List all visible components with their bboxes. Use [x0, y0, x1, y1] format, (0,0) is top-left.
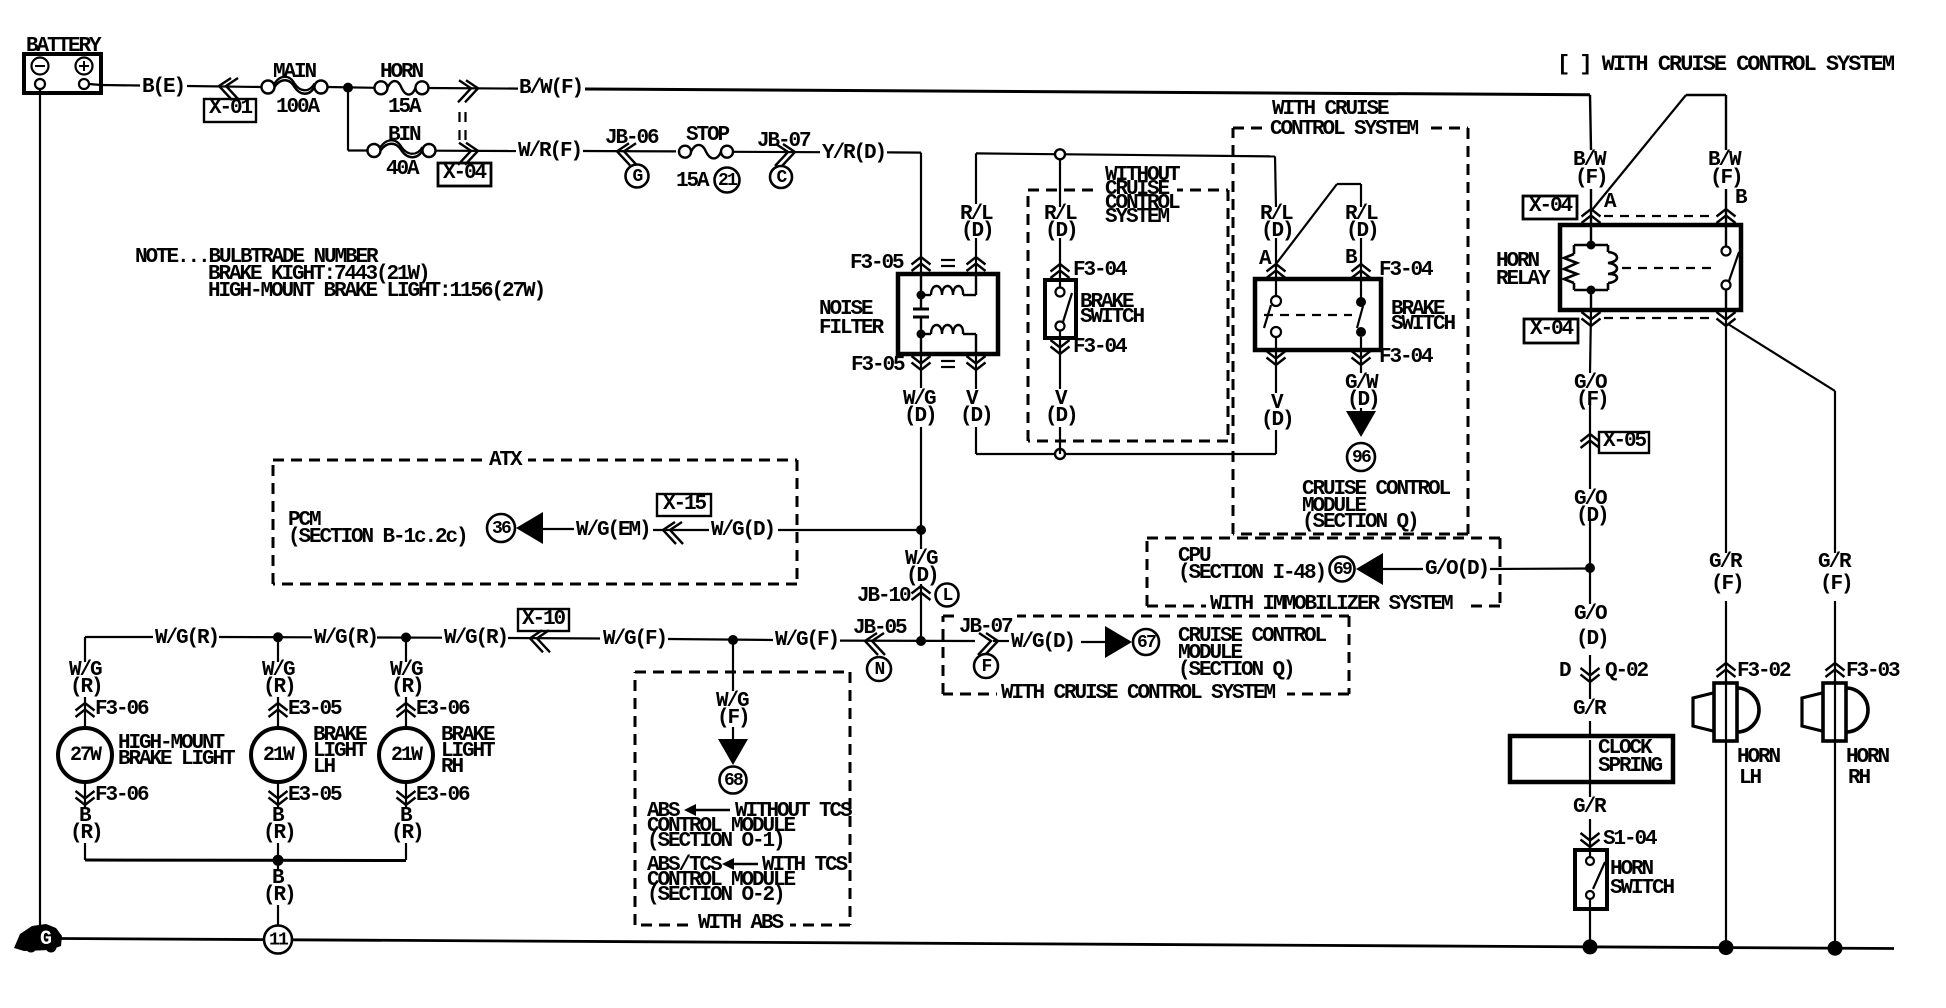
svg-text:(R): (R)	[391, 822, 423, 845]
svg-text:ATX: ATX	[489, 449, 523, 472]
connector X-04 bottom dashed link	[1604, 317, 1713, 319]
node 67 circle	[1133, 629, 1159, 655]
svg-text:LH: LH	[313, 756, 336, 779]
connector JB-05	[872, 633, 885, 655]
wire W/G(EM)	[543, 528, 574, 530]
connector S1-04	[1581, 840, 1600, 848]
wire bridge jog to B	[1686, 94, 1726, 96]
svg-text:15A: 15A	[676, 170, 710, 193]
wire W/G(R) bus	[85, 636, 153, 638]
svg-text:SPRING: SPRING	[1598, 755, 1663, 778]
node C circle	[770, 166, 792, 188]
svg-text:(SECTION I-48): (SECTION I-48)	[1178, 562, 1325, 585]
wire A bottom to junction run	[1275, 350, 1277, 393]
svg-text:68: 68	[724, 771, 743, 791]
svg-text:(SECTION O-1): (SECTION O-1)	[647, 830, 784, 853]
wire V(D) down and across	[975, 354, 977, 389]
svg-text:RH: RH	[441, 756, 464, 779]
junction node B(R)	[273, 855, 284, 866]
svg-text:F3-02: F3-02	[1737, 660, 1791, 683]
wire horn switch to ground rail	[1589, 909, 1591, 947]
connector JB-07 lower	[978, 633, 991, 655]
dashed box WITH ABS	[635, 671, 850, 674]
connector F3-04 A top	[1267, 264, 1286, 272]
connector X-04 box top	[1523, 196, 1577, 219]
wire diagonal to horn RH	[1728, 324, 1835, 391]
wire bridge diagonal	[1592, 95, 1686, 210]
svg-text:X-05: X-05	[1603, 430, 1647, 453]
fuse MAIN 100A	[262, 61, 328, 119]
svg-text:15A: 15A	[388, 96, 422, 119]
svg-text:(D): (D)	[1576, 628, 1608, 651]
svg-text:X-04: X-04	[1530, 318, 1574, 341]
connector X-04 A top chevron	[1582, 209, 1601, 217]
svg-text:STOP: STOP	[686, 124, 730, 147]
lamp 27W HIGH-MOUNT BRAKE LIGHT	[58, 659, 235, 860]
wire W/G(F)	[668, 639, 773, 640]
svg-text:RELAY: RELAY	[1496, 268, 1551, 291]
svg-text:X-01: X-01	[209, 97, 253, 120]
svg-text:F3-05: F3-05	[850, 252, 904, 275]
connector X-04 top dashed link	[1604, 215, 1713, 217]
connector X-04 dashed link	[458, 112, 460, 122]
wire W/R(F) to JB-06	[583, 150, 676, 153]
horn relay K1	[1560, 225, 1741, 310]
junction node rail horn LH	[1719, 940, 1734, 955]
svg-text:W/R(F): W/R(F)	[518, 140, 581, 163]
connector JB-06	[605, 127, 659, 165]
svg-text:SWITCH: SWITCH	[1391, 313, 1456, 336]
svg-text:RH: RH	[1848, 767, 1871, 790]
svg-text:(D): (D)	[1261, 220, 1293, 243]
connector F3-05 chevrons bottom	[912, 363, 931, 371]
lamp 21W BRAKE LIGHT RH	[379, 637, 495, 860]
svg-text:11: 11	[269, 931, 289, 951]
svg-text:F3-05: F3-05	[851, 354, 905, 377]
connector JB-10	[912, 586, 931, 594]
connector F3-04 B bottom	[1352, 358, 1371, 366]
wire W/G(D) to junction	[778, 529, 921, 531]
fuse BIN 40A	[368, 124, 436, 181]
svg-text:HIGH-MOUNT BRAKE LIGHT:1156(27: HIGH-MOUNT BRAKE LIGHT:1156(27W)	[208, 280, 544, 303]
svg-text:F3-03: F3-03	[1846, 660, 1900, 683]
wire G/O(D) feed	[1382, 568, 1423, 570]
svg-text:WITH CRUISE CONTROL SYSTEM: WITH CRUISE CONTROL SYSTEM	[1001, 682, 1276, 705]
wire ground rail	[60, 939, 264, 940]
svg-text:(R): (R)	[263, 822, 295, 845]
wire MAIN to HORN fuse	[327, 86, 375, 89]
svg-text:B(E): B(E)	[142, 76, 184, 99]
junction node W/G(D) drop	[916, 636, 926, 646]
svg-text:(D): (D)	[1347, 389, 1379, 412]
wire filter output up/over	[975, 238, 977, 274]
svg-text:G/R: G/R	[1573, 796, 1607, 819]
node 69 circle	[1330, 557, 1355, 582]
svg-text:F3-04: F3-04	[1379, 346, 1433, 369]
wire B(E)	[101, 84, 140, 87]
arrow to cruise module	[1105, 626, 1132, 658]
svg-text:27W: 27W	[70, 744, 102, 767]
dashed box WITH CRUISE CONTROL SYSTEM (lower)	[943, 615, 1349, 618]
svg-text:FILTER: FILTER	[819, 317, 885, 340]
svg-text:G/R: G/R	[1818, 551, 1852, 574]
svg-text:(D): (D)	[1576, 505, 1608, 528]
node N circle	[867, 657, 891, 681]
wire bridge diagonal A to B	[1276, 184, 1337, 264]
node F circle	[974, 654, 998, 678]
node G circle	[626, 165, 649, 188]
brake switch S2 (with cruise)	[1255, 279, 1381, 350]
connector F3-04 bottom	[1051, 347, 1070, 355]
svg-text:(R): (R)	[263, 676, 295, 699]
node 21 circle	[715, 168, 740, 193]
svg-text:Q-02: Q-02	[1605, 660, 1649, 683]
note text block	[135, 246, 544, 303]
svg-text:G/R: G/R	[1709, 551, 1743, 574]
svg-text:S1-04: S1-04	[1603, 828, 1657, 851]
svg-text:LH: LH	[1739, 767, 1762, 790]
arrow into PCM	[516, 512, 543, 544]
svg-text:E3-06: E3-06	[416, 784, 470, 807]
connector X-04 box	[438, 163, 491, 186]
svg-text:(D): (D)	[904, 405, 936, 428]
connector X-01 chevron	[226, 78, 239, 100]
svg-text:(D): (D)	[1261, 409, 1293, 432]
dashed box ATX	[273, 459, 797, 462]
connector X-05	[1581, 434, 1600, 442]
arrow to cruise control module	[1346, 411, 1376, 437]
wire W/G(D) down to PCM junction	[920, 354, 922, 388]
node L circle	[936, 584, 959, 607]
junction node rail horn switch	[1583, 939, 1598, 954]
svg-text:W/G(R): W/G(R)	[314, 627, 377, 650]
svg-text:W/G(R): W/G(R)	[155, 627, 218, 650]
horn RH symbol	[1802, 680, 1868, 948]
svg-text:F3-04: F3-04	[1379, 259, 1433, 282]
connector F3-04 A bottom	[1267, 358, 1286, 366]
svg-text:SYSTEM: SYSTEM	[1105, 206, 1170, 229]
svg-text:X-10: X-10	[522, 608, 566, 631]
svg-text:D: D	[1559, 660, 1571, 683]
wire bus corner down bulb 1	[84, 637, 86, 662]
svg-text:L: L	[942, 586, 952, 606]
label ABS WITHOUT TCS CONTROL MODULE (SECTION O-1)	[647, 800, 852, 853]
junction node W/G	[916, 525, 926, 535]
connector F3-04 top	[1051, 264, 1070, 272]
connector X-04 chevron (top)	[458, 80, 471, 102]
wire B(R) bus	[85, 859, 406, 863]
wire R/L(D) A drop	[1275, 156, 1276, 207]
svg-text:(F): (F)	[1576, 389, 1608, 412]
horn LH symbol	[1693, 680, 1759, 947]
node 68 circle	[720, 767, 747, 794]
svg-text:SWITCH: SWITCH	[1610, 877, 1675, 900]
connector X-15	[653, 529, 709, 531]
junction node CPU feed	[1585, 563, 1595, 573]
svg-text:G/O(D): G/O(D)	[1425, 558, 1488, 581]
clock spring	[1510, 736, 1673, 782]
svg-text:F3-04: F3-04	[1073, 259, 1127, 282]
svg-text:W/G(D): W/G(D)	[1011, 631, 1074, 654]
connector F3-04 B top	[1352, 264, 1371, 272]
svg-text:67: 67	[1137, 633, 1156, 653]
node 96 circle	[1347, 443, 1375, 471]
wire to JB-10	[920, 532, 922, 549]
svg-text:(R): (R)	[70, 822, 102, 845]
svg-text:JB-07: JB-07	[959, 616, 1013, 639]
dashed box WITH IMMOBILIZER SYSTEM	[1147, 537, 1500, 540]
svg-text:[ ] WITH CRUISE CONTROL SYSTEM: [ ] WITH CRUISE CONTROL SYSTEM	[1557, 52, 1895, 77]
svg-text:CONTROL SYSTEM: CONTROL SYSTEM	[1270, 118, 1419, 141]
wire to horn RH	[1834, 391, 1836, 553]
horn relay dashed actuator link	[1622, 267, 1718, 269]
svg-text:HORN: HORN	[1737, 746, 1781, 769]
svg-text:(F): (F)	[1820, 573, 1852, 596]
wire B/W(F) main feed	[585, 89, 1590, 95]
svg-text:W/G(R): W/G(R)	[444, 627, 507, 650]
svg-text:G: G	[632, 167, 642, 187]
dashed box WITH CRUISE CONTROL SYSTEM	[1233, 127, 1468, 130]
svg-text:(SECTION Q): (SECTION Q)	[1302, 511, 1418, 534]
svg-text:21: 21	[718, 171, 738, 191]
wire relay output to horn LH	[1725, 310, 1727, 553]
svg-text:21W: 21W	[391, 744, 423, 767]
horn switch S3	[1575, 850, 1607, 909]
wire Y/R(D) to noise filter	[887, 151, 921, 153]
wire to ground node 11	[277, 860, 279, 869]
svg-text:(R): (R)	[263, 884, 295, 907]
svg-text:(F): (F)	[717, 707, 749, 730]
connector F3-02	[1717, 663, 1736, 671]
node 36 circle	[487, 514, 515, 542]
svg-text:(R): (R)	[391, 676, 423, 699]
wire Y/R(D) second run	[976, 153, 1275, 156]
wire W/G(F) drop to ABS	[732, 640, 734, 691]
svg-text:JB-10: JB-10	[857, 585, 911, 608]
lamp 21W BRAKE LIGHT LH	[251, 637, 367, 860]
wire junction down to BIN fuse	[347, 88, 349, 151]
wire JB-10 to W/G(F) run	[920, 584, 922, 641]
svg-text:JB-05: JB-05	[853, 617, 907, 640]
wire G/O(D)	[1589, 521, 1591, 604]
svg-text:69: 69	[1333, 560, 1352, 580]
svg-text:40A: 40A	[386, 158, 420, 181]
connector F3-03	[1826, 663, 1845, 671]
svg-text:21W: 21W	[263, 744, 295, 767]
battery	[24, 35, 102, 93]
wire HORN fuse to X-04	[428, 87, 518, 90]
connector X-04 B top chevron	[1717, 209, 1736, 217]
svg-text:(F): (F)	[1575, 167, 1607, 190]
svg-text:BRAKE LIGHT: BRAKE LIGHT	[118, 748, 235, 771]
wire battery negative to ground	[39, 89, 41, 926]
svg-text:(SECTION B-1c.2c): (SECTION B-1c.2c)	[288, 526, 467, 549]
svg-text:36: 36	[492, 519, 511, 539]
connector X-01 box	[204, 99, 256, 122]
svg-text:HORN: HORN	[380, 61, 424, 84]
noise filter box U1	[898, 274, 998, 354]
fuse HORN 15A	[375, 61, 429, 119]
label ABS/TCS WITH TCS CONTROL MODULE (SECTION O-2)	[647, 854, 848, 907]
svg-text:(SECTION Q): (SECTION Q)	[1178, 659, 1294, 682]
svg-text:W/G(D): W/G(D)	[711, 519, 774, 542]
label W/G(D) lower	[993, 640, 1009, 642]
svg-text:WITH ABS: WITH ABS	[698, 912, 784, 935]
connector X-04 chevron (bottom)	[458, 143, 471, 165]
ground symbol G (body ground)	[14, 924, 62, 953]
noise filter internals	[913, 274, 976, 354]
svg-text:B/W(F): B/W(F)	[519, 77, 582, 100]
junction node rail horn RH	[1828, 941, 1843, 956]
arrow into CPU	[1356, 553, 1383, 585]
connector JB-07	[757, 130, 811, 166]
wire to clock spring	[1589, 721, 1591, 737]
junction node	[343, 83, 353, 93]
svg-text:(D): (D)	[1045, 405, 1077, 428]
label CRUISE CONTROL MODULE (SECTION Q)	[1302, 478, 1451, 534]
wire G/O(F)	[1590, 310, 1591, 373]
junction node ABS	[728, 635, 738, 645]
svg-text:WITH IMMOBILIZER SYSTEM: WITH IMMOBILIZER SYSTEM	[1210, 593, 1453, 616]
svg-text:100A: 100A	[276, 96, 321, 119]
connector Q-02	[1589, 655, 1591, 699]
wire to JB-05	[840, 639, 975, 642]
svg-text:F3-06: F3-06	[95, 698, 149, 721]
svg-text:E3-06: E3-06	[416, 698, 470, 721]
junction node bulb LH	[273, 632, 283, 642]
connector X-10	[537, 630, 550, 652]
wire V(D) to junction	[1059, 338, 1061, 389]
svg-text:W/G(EM): W/G(EM)	[576, 519, 650, 542]
svg-text:G/O: G/O	[1574, 603, 1607, 626]
connector X-04 box bottom	[1524, 319, 1578, 343]
fuse STOP 15A	[676, 124, 733, 193]
svg-text:N: N	[874, 660, 884, 680]
node 11 circle	[264, 926, 292, 954]
svg-text:E3-05: E3-05	[288, 698, 342, 721]
brake switch S1 (without cruise)	[1045, 280, 1076, 338]
wire B/W(F) A drop	[1590, 95, 1591, 150]
svg-text:G: G	[40, 928, 52, 951]
svg-text:E3-05: E3-05	[288, 784, 342, 807]
wire STOP to JB-07	[733, 151, 820, 154]
svg-text:(D): (D)	[1045, 220, 1077, 243]
label WITHOUT CRUISE CONTROL SYSTEM	[1105, 164, 1180, 229]
connector X-04 B bottom chevron	[1717, 319, 1736, 327]
svg-text:(R): (R)	[70, 676, 102, 699]
svg-text:(D): (D)	[960, 405, 992, 428]
junction node bulb RH	[401, 633, 411, 643]
connector X-04 A bottom chevron	[1582, 319, 1601, 327]
connector F3-05 chevrons top	[912, 257, 931, 265]
wire noise filter input drop	[920, 153, 922, 274]
svg-text:X-15: X-15	[663, 493, 707, 516]
svg-text:96: 96	[1352, 448, 1371, 468]
svg-text:W/G(F): W/G(F)	[775, 629, 838, 652]
node junction open circle lower	[1055, 449, 1065, 459]
svg-text:Y/R(D): Y/R(D)	[822, 142, 885, 165]
arrow to ABS module	[718, 739, 748, 765]
node junction open circle	[1055, 149, 1065, 159]
svg-text:(D): (D)	[1346, 220, 1378, 243]
svg-text:(SECTION O-2): (SECTION O-2)	[647, 884, 784, 907]
svg-text:F: F	[981, 657, 991, 677]
wire G/W short	[1360, 350, 1362, 373]
svg-text:(F): (F)	[1711, 573, 1743, 596]
svg-text:HORN: HORN	[1846, 746, 1890, 769]
svg-text:F3-04: F3-04	[1073, 336, 1127, 359]
wire to CCM arrow	[1081, 641, 1106, 643]
svg-text:SWITCH: SWITCH	[1080, 306, 1145, 329]
wire R/L(D) drop to brake switch	[1059, 159, 1061, 207]
dashed box WITHOUT CRUISE CONTROL SYSTEM	[1028, 189, 1228, 192]
svg-text:X-04: X-04	[443, 162, 487, 185]
horn relay coil	[1564, 225, 1617, 310]
svg-text:F3-06: F3-06	[95, 784, 149, 807]
label CRUISE CONTROL MODULE (SECTION Q)	[1178, 625, 1327, 682]
svg-text:G/R: G/R	[1573, 698, 1607, 721]
wire BIN fuse to X-04	[435, 150, 516, 153]
horn relay contact	[1722, 225, 1740, 310]
wire to horn switch	[1589, 782, 1591, 797]
svg-text:W/G(F): W/G(F)	[603, 628, 666, 651]
svg-text:X-04: X-04	[1529, 195, 1573, 218]
